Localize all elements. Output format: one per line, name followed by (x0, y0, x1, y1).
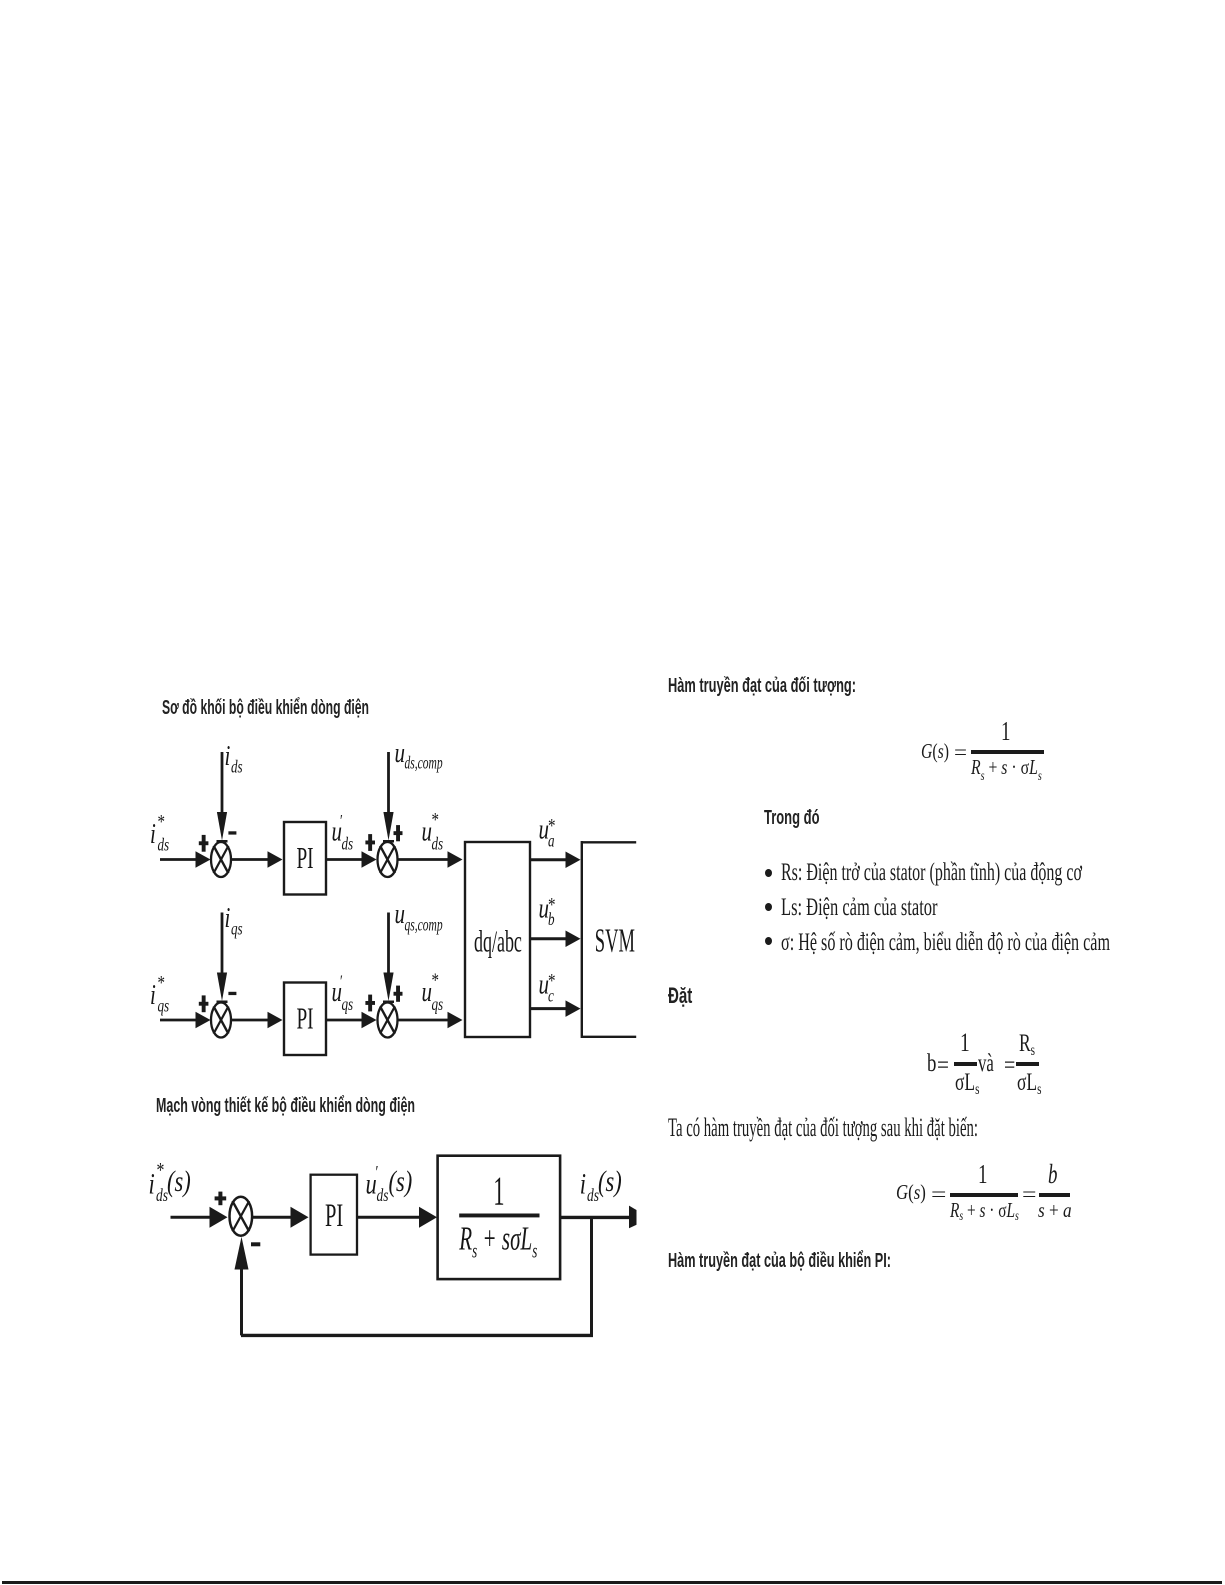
wire: dq/abc output u*a to SVM (531, 858, 567, 861)
bullet 3 dot (765, 937, 772, 945)
arrowhead into PI block row 2 (268, 1012, 283, 1029)
svg-text:qs,comp: qs,comp (405, 916, 443, 935)
wire: PI to summing junction S2b (327, 1019, 363, 1022)
wire: S1b to dq/abc block (398, 858, 448, 861)
wire: S2a to PI block (232, 1019, 269, 1022)
plus sign at S1a input (199, 835, 209, 852)
svg-text:ds: ds (156, 1186, 168, 1205)
formula F1 fraction bar (971, 750, 1045, 754)
minus sign at S2a (228, 992, 236, 995)
arrowhead u*b into SVM (566, 930, 581, 947)
wire: D2 junction to PI (253, 1216, 292, 1219)
svg-text:i: i (150, 819, 156, 850)
svg-text:dq/abc: dq/abc (474, 924, 522, 958)
bullet 3 text: sigma he so ro dien cam (781, 930, 1110, 955)
dq/abc transform block (465, 842, 530, 1037)
clipped output arrowhead (629, 1206, 637, 1229)
wire: S2b to dq/abc block (398, 1019, 448, 1022)
svg-text:PI: PI (297, 1001, 314, 1036)
svg-text:1: 1 (493, 1170, 504, 1215)
formula F3 denominator s+a (1038, 1200, 1072, 1221)
wire: vertical u_qs,comp into S2b (387, 913, 390, 975)
svg-text:PI: PI (297, 840, 314, 875)
formula F3 denominator Rs+s.sigmaLs (950, 1200, 1019, 1221)
svg-text:qs: qs (231, 920, 243, 939)
summing junction S1b (circle with X) (378, 842, 398, 877)
arrowhead base bar at S2a (217, 1001, 228, 1004)
svg-text:u: u (395, 899, 406, 930)
svg-text:PI: PI (325, 1197, 343, 1233)
summing junction S2a (circle with X) (211, 1003, 231, 1038)
plus sign at S1b left input (365, 834, 375, 851)
svg-text:i: i (580, 1166, 586, 1200)
wire: dq/abc output u*b to SVM (531, 937, 567, 940)
arrowhead into summing junction S1a (196, 851, 211, 868)
formula F2 denominator 2 sigmaLs (1017, 1070, 1041, 1095)
arrowhead into dq/abc row 1 (448, 851, 463, 868)
plus sign at S2a input (199, 995, 209, 1012)
arrowhead base bar at S2b (383, 1001, 394, 1004)
wire: dq/abc output u*c to SVM (531, 1007, 567, 1010)
plus sign at S1b top input (394, 825, 403, 841)
wire: feedback branch down (590, 1217, 593, 1335)
SVM block top edge (581, 841, 636, 843)
PI controller block row 1 (284, 822, 326, 895)
minus sign at D2 feedback input (251, 1242, 260, 1246)
svg-text:′: ′ (376, 1163, 379, 1182)
svg-text:ds: ds (432, 835, 444, 854)
arrowhead into S1b (362, 851, 377, 868)
arrowhead base bar at S1b (383, 840, 394, 843)
arrowhead into plant block (419, 1207, 437, 1228)
formula F2 fraction bar 1 (954, 1062, 977, 1066)
formula F3 G(s) (896, 1182, 926, 1203)
wire: vertical u_ds,comp into S1b (387, 752, 390, 814)
formula F3 fraction bar 1 (950, 1193, 1018, 1197)
wire: input i*qs into summing junction (160, 1019, 198, 1022)
long arrowhead (down) into S2a (217, 973, 227, 1002)
svg-text:i: i (225, 903, 231, 934)
SVM block left edge (581, 841, 583, 1038)
heading: Ham truyen dat cua doi tuong (668, 676, 856, 696)
arrowhead into PI block row 1 (268, 851, 283, 868)
svg-text:ds: ds (158, 836, 170, 855)
bullet 2 text: Ls dien cam cua stator (781, 895, 938, 920)
svg-text:*: * (432, 968, 439, 991)
formula F2 fraction bar 2 (1016, 1062, 1039, 1066)
plant fraction bar (459, 1214, 539, 1218)
arrowhead u*a into SVM (566, 852, 581, 869)
feedback arrowhead (up) into D2 (235, 1237, 249, 1270)
arrowhead base bar at S1a (217, 840, 228, 843)
formula F2 equals 2 (1004, 1053, 1015, 1078)
caption: Mach vong thiet ke bo dieu khien dong dien (156, 1096, 415, 1116)
PI controller block row 2 (284, 983, 326, 1056)
svg-text:*: * (158, 971, 165, 994)
arrowhead into summing junction S2a (196, 1012, 211, 1029)
plant transfer function block 1/(Rs+s sigma Ls) (438, 1156, 560, 1279)
wire: PI to summing junction S1b (327, 858, 363, 861)
long arrowhead (down) into S1a (217, 812, 227, 841)
bottom horizontal rule (2, 1581, 1222, 1584)
svg-text:Rs + sσLs: Rs + sσLs (458, 1221, 537, 1263)
svg-text:*: * (432, 808, 439, 831)
wire: feedback up run (240, 1269, 243, 1335)
svg-text:i: i (149, 1166, 155, 1200)
formula F2 b (927, 1051, 936, 1076)
formula F2 equals 1 (937, 1053, 949, 1078)
heading: Trong do (764, 808, 820, 828)
plus sign at S2b left input (365, 995, 375, 1012)
svg-text:i: i (150, 980, 156, 1011)
summing junction D2 (circle with X) (230, 1197, 253, 1236)
svg-text:′: ′ (340, 812, 343, 830)
formula F1 numerator 1 (1001, 718, 1010, 745)
formula F2 denominator sigmaLs (955, 1070, 979, 1095)
wire: S1a to PI block (232, 858, 269, 861)
svg-text:*: * (548, 814, 555, 837)
formula F3 numerator 1 (978, 1161, 987, 1188)
arrowhead into S2b (362, 1012, 377, 1029)
svg-text:(s): (s) (167, 1164, 191, 1198)
long arrowhead (down) into S2b (383, 973, 393, 1002)
svg-text:(s): (s) (389, 1164, 413, 1198)
summing junction S2b (circle with X) (378, 1003, 398, 1038)
svg-text:ds: ds (231, 758, 243, 777)
long arrowhead (down) into S1b (383, 812, 393, 841)
wire: vertical i_qs into S2a (221, 913, 224, 975)
formula F3 fraction bar 2 (1039, 1193, 1070, 1197)
svg-text:qs: qs (432, 995, 444, 1014)
plus sign at S2b top input (394, 986, 403, 1002)
heading: Ham truyen dat cua bo dieu khien PI (668, 1251, 891, 1271)
wire: input i*ds into summing junction (160, 858, 198, 861)
caption: So do khoi bo dieu khien dong dien (162, 698, 369, 718)
svg-text:u: u (422, 977, 433, 1008)
svg-text:(s): (s) (598, 1164, 622, 1198)
svg-text:*: * (548, 969, 555, 992)
svg-text:qs: qs (158, 997, 170, 1016)
formula F3 second equals (1022, 1184, 1036, 1205)
minus sign at S1a (228, 831, 236, 834)
arrowhead into dq/abc row 2 (448, 1012, 463, 1029)
formula F3 equals 1 (931, 1184, 946, 1205)
wire: feedback bottom run (241, 1334, 593, 1337)
formula F2 numerator 1 (960, 1030, 970, 1056)
formula F3 numerator b (1048, 1161, 1057, 1188)
bullet 2 dot (765, 903, 772, 911)
bullet 1 text: Rs dien tro cua stator (781, 860, 1082, 885)
formula F2 numerator Rs (1019, 1031, 1035, 1056)
SVM block bottom edge (581, 1036, 636, 1038)
wire: plant output i_ds(s) (561, 1216, 631, 1219)
plus sign at D2 summing input (215, 1192, 227, 1206)
wire: vertical i_ds into S1a (221, 752, 224, 814)
svg-text:*: * (158, 810, 165, 833)
svg-text:i: i (225, 741, 231, 772)
svg-text:*: * (157, 1159, 165, 1183)
svg-text:ds: ds (587, 1186, 599, 1205)
formula F1 G(s) (921, 741, 949, 762)
formula F1 equals (954, 742, 967, 763)
arrowhead u*c into SVM (566, 1000, 581, 1017)
svg-text:qs: qs (342, 995, 354, 1014)
svg-text:ds: ds (377, 1186, 389, 1205)
PI controller block D2 (311, 1175, 357, 1255)
wire: PI to plant block (358, 1216, 422, 1219)
svg-text:′: ′ (340, 973, 343, 991)
arrowhead into PI block D2 (291, 1207, 309, 1228)
svg-text:ds: ds (342, 835, 354, 854)
arrowhead into summing junction D2 (210, 1207, 228, 1228)
bullet 1 dot (765, 869, 772, 877)
paragraph: Ta co ham truyen dat cua doi tuong sau khi dat bien (668, 1115, 978, 1141)
formula F2 va (978, 1051, 994, 1076)
svg-text:*: * (548, 893, 555, 916)
svg-text:ds,comp: ds,comp (405, 754, 443, 773)
svg-text:u: u (395, 738, 406, 769)
wire: input i*ds(s) (171, 1216, 212, 1219)
svg-text:SVM: SVM (595, 922, 635, 959)
formula F1 denominator Rs+s.sigmaLs (971, 757, 1042, 778)
svg-text:u: u (422, 817, 433, 848)
summing junction S1a (circle with X) (211, 842, 231, 877)
heading: Dat (668, 985, 692, 1008)
